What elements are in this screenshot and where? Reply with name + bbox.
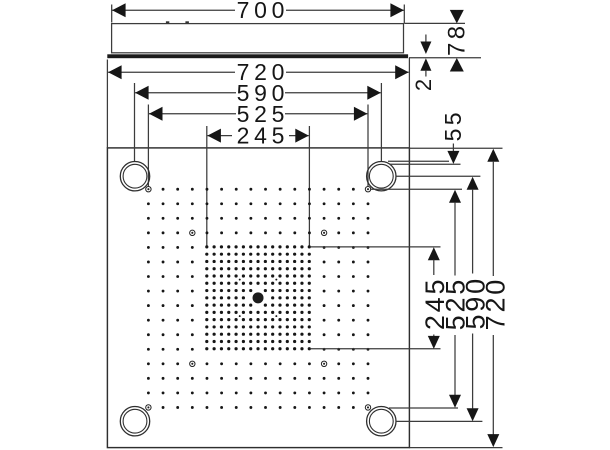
svg-text:720: 720 xyxy=(480,277,510,330)
svg-text:78: 78 xyxy=(443,23,470,57)
svg-text:55: 55 xyxy=(440,109,466,141)
svg-text:2: 2 xyxy=(411,79,436,91)
svg-text:700: 700 xyxy=(237,0,289,23)
svg-text:245: 245 xyxy=(237,123,289,149)
